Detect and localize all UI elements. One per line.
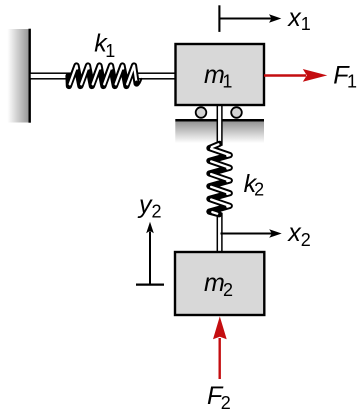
- spring k2 coil: [209, 144, 229, 215]
- ground line under rollers: [175, 120, 264, 143]
- force arrow F2: [213, 316, 227, 379]
- wall anchor: [8, 29, 31, 123]
- mass m2 box: [175, 252, 264, 315]
- svg-text:x1: x1: [287, 4, 311, 34]
- svg-text:x2: x2: [287, 219, 311, 250]
- force arrow F1: [264, 69, 327, 82]
- mass m1 box: [176, 44, 265, 105]
- svg-text:F1: F1: [333, 61, 357, 91]
- svg-text:F2: F2: [207, 382, 231, 413]
- svg-text:k1: k1: [94, 30, 115, 62]
- coordinate marker x1: arrow: [219, 14, 281, 22]
- coordinate marker y2: base tick: [136, 284, 164, 286]
- coordinate marker x2: arrow: [221, 229, 282, 238]
- wire rod from spring k1 to mass m1: [135, 73, 177, 79]
- roller left: [196, 107, 207, 118]
- coordinate marker x1: origin tick: [218, 5, 220, 32]
- wire rod from spring k2 down to mass m2: [217, 214, 222, 253]
- svg-text:k2: k2: [244, 170, 265, 200]
- spring k1 coil: [69, 66, 142, 87]
- svg-text:y2: y2: [137, 191, 162, 221]
- wire rod from wall to spring k1: [30, 73, 70, 79]
- wire rod from mass m1 down to spring k2: [217, 105, 222, 145]
- coordinate marker y2: arrow: [146, 222, 154, 285]
- roller right: [231, 107, 242, 118]
